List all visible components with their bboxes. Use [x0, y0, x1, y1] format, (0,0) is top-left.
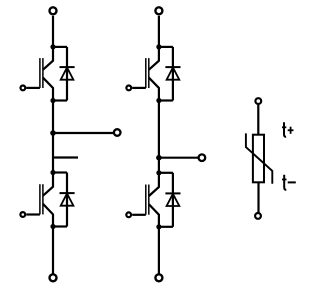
wire collector node to diode D3 branch	[159, 46, 173, 48]
terminal DC- bottom leg 1	[50, 274, 57, 281]
gate terminal Q2	[20, 212, 25, 217]
wire emitter Q2 to bottom terminal leg 1	[52, 227, 54, 275]
node emitter Q4 (junction dot)	[156, 224, 161, 229]
terminal phase output leg 2	[199, 154, 206, 161]
IGBT Q1 (top transistor, leg 1)	[26, 47, 53, 101]
wire emitter node to diode D1 branch	[53, 99, 67, 101]
node phase output leg 2 (junction dot)	[156, 155, 162, 161]
node phase output leg 1 (junction dot)	[50, 130, 56, 136]
label t-	[282, 175, 296, 190]
diode D2 (antiparallel with Q2)	[60, 173, 75, 227]
wire emitter Q3 to phase node 2	[158, 101, 160, 158]
wire from terminal 1 to collector node of Q1	[52, 16, 54, 47]
gate terminal Q4	[126, 212, 131, 217]
IGBT Q4 (bottom transistor, leg 2)	[132, 173, 159, 227]
gate terminal Q3	[126, 86, 131, 91]
wire phase node 2 down to collector node of Q4	[158, 158, 160, 173]
wire auxiliary emitter stub leg 1	[53, 156, 78, 158]
wire collector node to diode D1 branch	[53, 46, 67, 48]
node emitter Q1 (junction dot)	[50, 98, 55, 103]
terminal t+ (thermistor top)	[255, 98, 261, 104]
wire thermistor bottom lead	[257, 182, 259, 212]
IGBT Q2 (bottom transistor, leg 1)	[26, 173, 53, 227]
terminal phase output leg 1	[114, 129, 121, 136]
thermistor R (NTC) body	[253, 135, 264, 183]
terminal DC- bottom leg 2	[155, 274, 162, 281]
wire collector node to diode D2 branch	[53, 171, 67, 173]
wire thermistor top lead	[257, 105, 259, 135]
node emitter Q3 (junction dot)	[156, 98, 161, 103]
node collector Q2 (junction dot)	[50, 170, 55, 175]
terminal 1 (DC+ top, leg 1)	[50, 7, 57, 14]
wire emitter Q4 to bottom terminal leg 2	[158, 227, 160, 274]
node collector Q1 (junction dot)	[50, 44, 55, 49]
terminal 2 (DC+ top, leg 2)	[155, 7, 162, 14]
wire phase node 1 down to collector node of Q2	[52, 133, 54, 173]
wire collector node to diode D4 branch	[159, 172, 173, 174]
wire emitter node to diode D4 branch	[159, 226, 173, 228]
diode D4 (antiparallel with Q4)	[165, 173, 180, 227]
node collector Q3 (junction dot)	[156, 44, 161, 49]
label t+	[282, 122, 294, 137]
node emitter Q2 (junction dot)	[50, 224, 55, 229]
thermistor strike line	[246, 133, 272, 183]
node collector Q4 (junction dot)	[156, 170, 161, 175]
wire emitter Q1 to phase node 1	[52, 101, 54, 134]
diode D1 (antiparallel with Q1)	[60, 47, 75, 101]
wire emitter node to diode D3 branch	[159, 99, 173, 101]
wire phase node 2 to terminal	[159, 157, 199, 159]
wire from terminal 2 to collector node of Q3	[158, 16, 160, 47]
gate terminal Q1	[21, 86, 26, 91]
IGBT Q3 (top transistor, leg 2)	[132, 47, 159, 101]
wire phase node 1 to terminal	[53, 132, 114, 134]
wire emitter node to diode D2 branch	[53, 225, 67, 227]
terminal t- (thermistor bottom)	[255, 213, 261, 219]
diode D3 (antiparallel with Q3)	[165, 47, 180, 101]
